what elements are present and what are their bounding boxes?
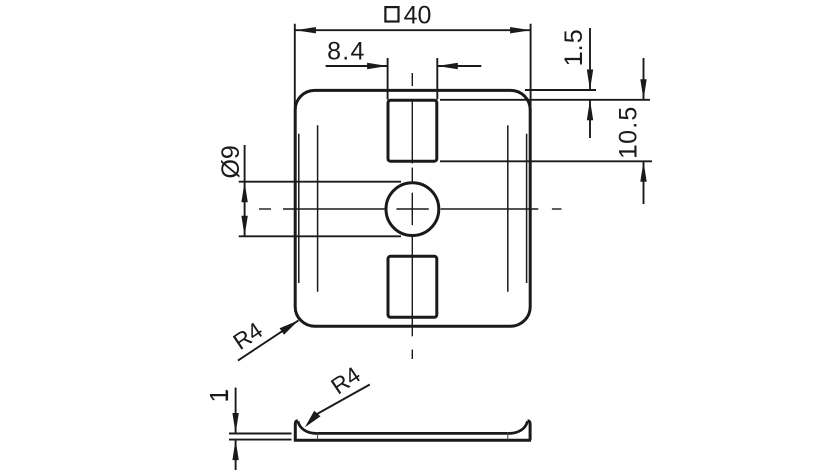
svg-text:Ø9: Ø9 — [217, 145, 245, 178]
svg-text:1: 1 — [206, 389, 234, 403]
svg-text:40: 40 — [404, 2, 432, 30]
svg-text:8.4: 8.4 — [327, 37, 366, 65]
svg-text:10.5: 10.5 — [614, 105, 642, 158]
svg-text:1.5: 1.5 — [560, 28, 588, 66]
